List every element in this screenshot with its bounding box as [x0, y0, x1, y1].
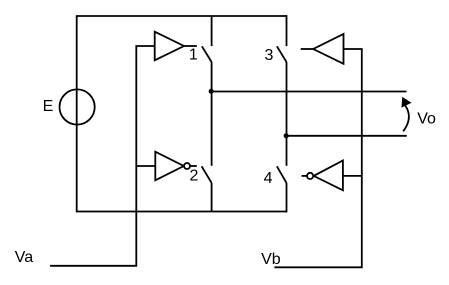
switch 4: [277, 166, 287, 212]
wire U2 output stub: [190, 165, 197, 167]
wire output B: [287, 135, 407, 137]
wire leg A middle: [211, 62, 213, 166]
svg-text:Vo: Vo: [417, 111, 436, 128]
buffer U3: [313, 34, 343, 64]
wire top rail, left rail, bottom rail: [77, 16, 287, 212]
switch 1: [202, 16, 212, 62]
wire U4 output stub: [302, 175, 308, 177]
wire Vb control line: [274, 49, 361, 267]
switch 3: [277, 15, 287, 62]
svg-text:4: 4: [264, 170, 273, 187]
node B: [284, 133, 289, 138]
arrowhead Vo: [402, 97, 412, 108]
wire leg B middle: [286, 62, 288, 166]
wire U2 input: [136, 165, 155, 167]
svg-text:3: 3: [264, 47, 273, 64]
wire Va control line: [50, 46, 155, 266]
node A: [209, 89, 214, 94]
buffer U1: [155, 32, 184, 61]
svg-text:Vb: Vb: [261, 251, 281, 268]
wire U3 output stub: [301, 48, 314, 50]
svg-text:E: E: [43, 98, 54, 115]
inverter U2: [155, 152, 190, 181]
arrow Vo arc: [403, 106, 409, 132]
wire U4 input: [343, 175, 362, 177]
svg-text:2: 2: [190, 168, 199, 185]
wire output A: [212, 91, 407, 93]
switch 2: [202, 166, 212, 211]
voltage source E: [60, 89, 95, 124]
wire U1 output stub: [184, 45, 197, 47]
svg-text:Va: Va: [15, 249, 33, 266]
inverter U4: [307, 161, 343, 191]
svg-text:1: 1: [189, 47, 198, 64]
